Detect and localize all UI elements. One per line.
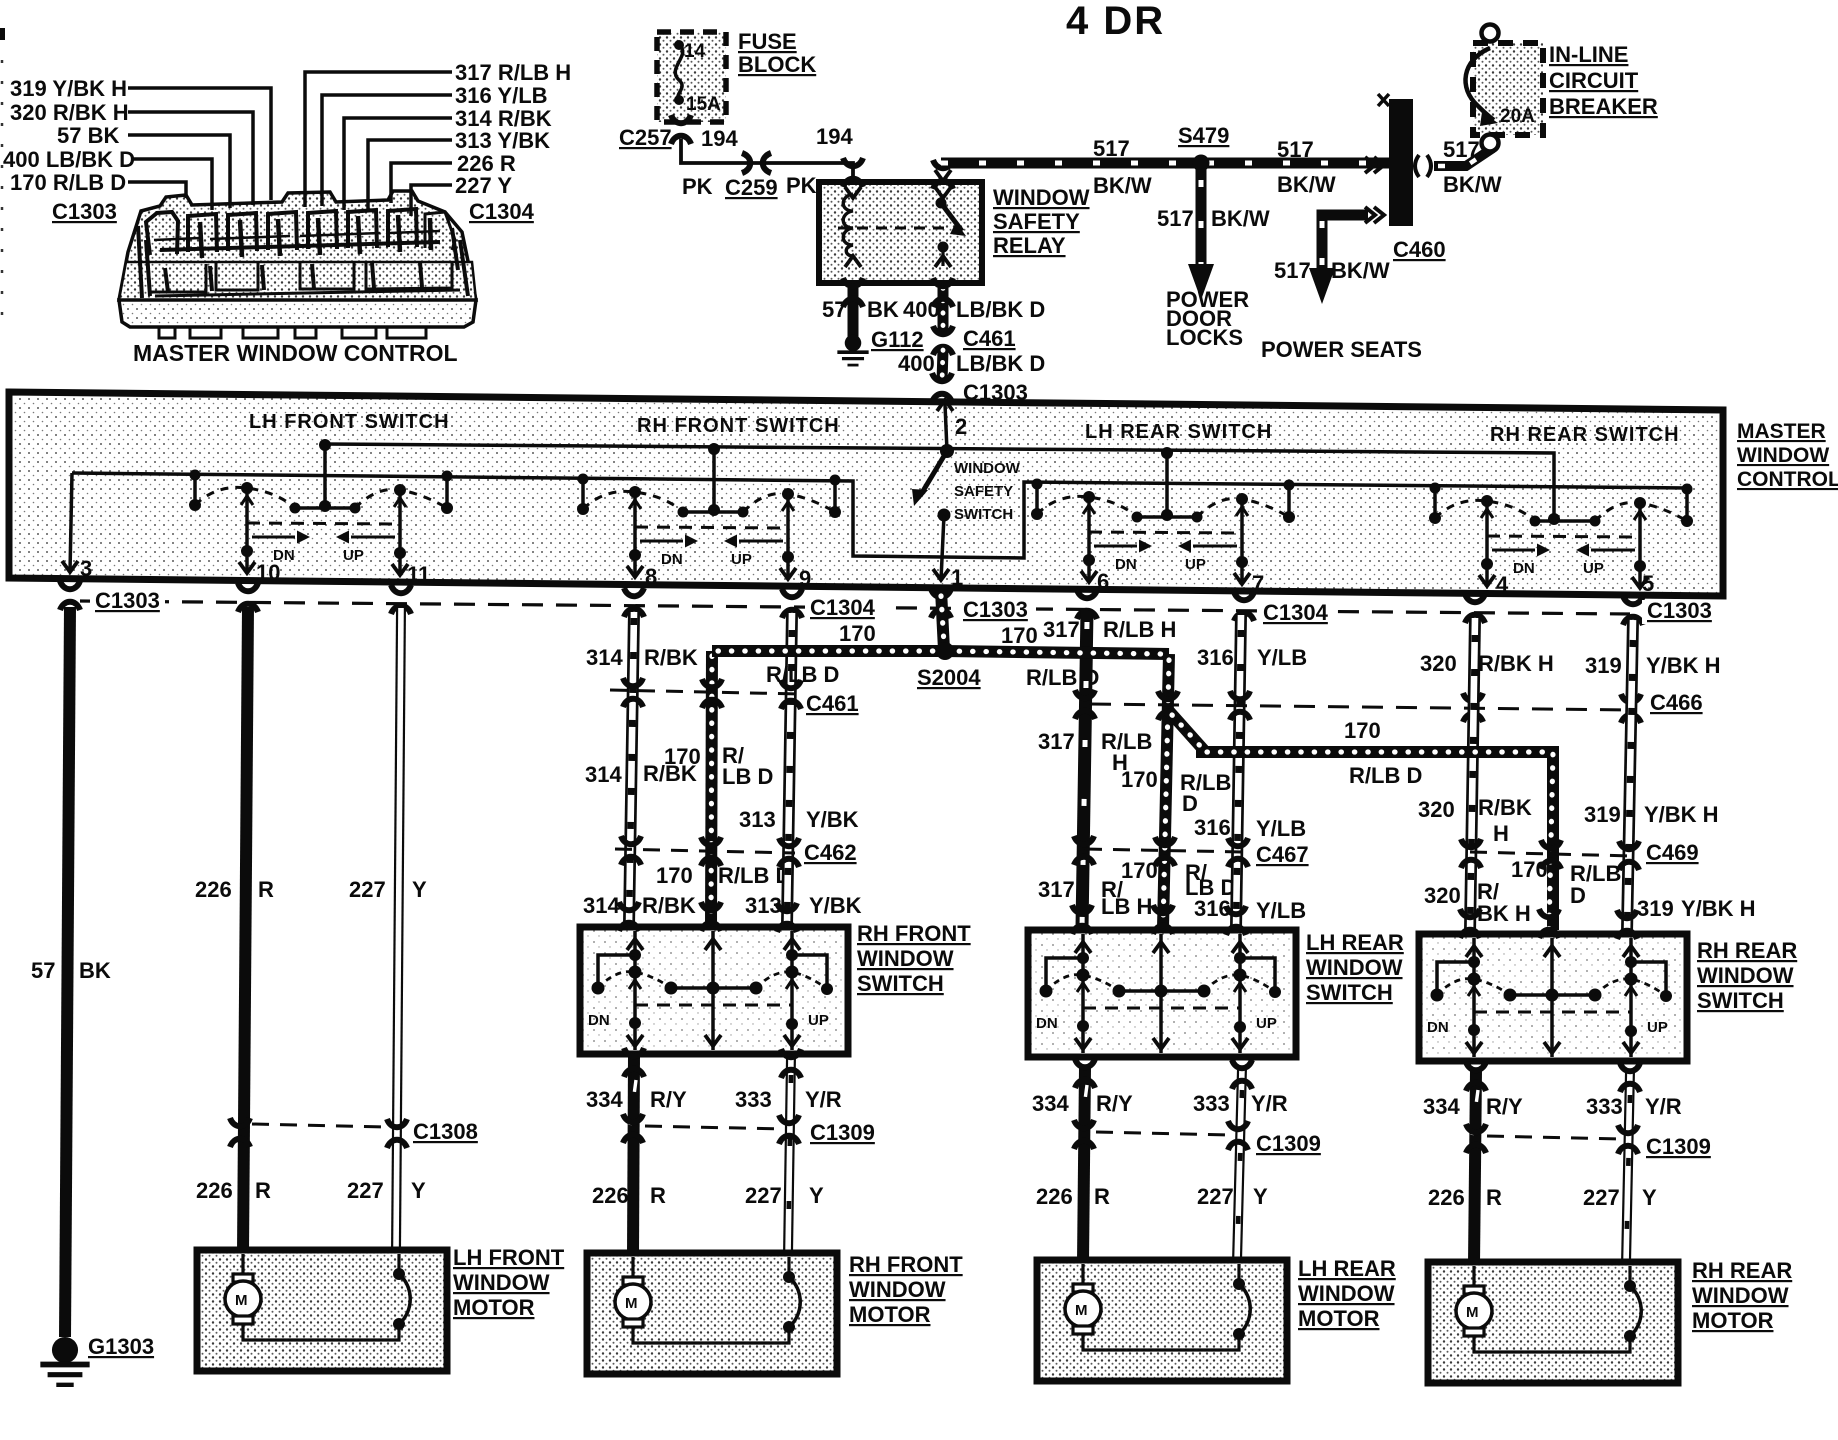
wire 170 R/LB D horizontal run	[712, 651, 1169, 654]
svg-text:LH REAR SWITCH: LH REAR SWITCH	[1085, 421, 1272, 443]
svg-text:C1303: C1303	[52, 199, 117, 224]
pin 2 lead inside box	[945, 404, 947, 451]
svg-text:WINDOW: WINDOW	[1298, 1281, 1395, 1306]
svg-text:Y/BK: Y/BK	[806, 807, 859, 832]
svg-text:317: 317	[1038, 729, 1075, 754]
svg-text:320: 320	[1418, 797, 1455, 822]
svg-text:316: 316	[1197, 645, 1234, 670]
svg-text:WINDOW: WINDOW	[849, 1277, 946, 1302]
svg-text:Y/LB: Y/LB	[1256, 816, 1306, 841]
svg-text:BLOCK: BLOCK	[738, 52, 816, 77]
RH rear window motor	[1428, 1262, 1678, 1383]
pictorial leader wire 227	[411, 185, 452, 216]
pictorial leader wire 400	[131, 159, 212, 210]
svg-text:BK/W: BK/W	[1093, 173, 1152, 198]
connector C462	[615, 836, 799, 867]
svg-text:MOTOR: MOTOR	[1692, 1308, 1774, 1333]
RH rear switch contacts	[1429, 483, 1693, 589]
wire 313 Y/BK column	[787, 613, 792, 925]
svg-text:C1304: C1304	[1263, 600, 1329, 625]
svg-text:C462: C462	[804, 840, 857, 865]
svg-text:2: 2	[955, 414, 967, 439]
svg-text:R/LB D: R/LB D	[766, 662, 839, 687]
svg-text:FUSE: FUSE	[738, 29, 797, 54]
svg-text:10: 10	[256, 560, 280, 585]
svg-text:R: R	[1486, 1185, 1502, 1210]
svg-text:319 Y/BK H: 319 Y/BK H	[10, 76, 127, 101]
svg-text:LB D: LB D	[722, 764, 773, 789]
svg-text:WINDOW: WINDOW	[993, 185, 1090, 210]
svg-text:D: D	[1570, 883, 1586, 908]
svg-text:PK: PK	[786, 173, 817, 198]
svg-text:R/LB H: R/LB H	[1103, 617, 1176, 642]
svg-text:170: 170	[839, 621, 876, 646]
svg-text:170: 170	[656, 863, 693, 888]
svg-text:Y/LB: Y/LB	[1256, 898, 1306, 923]
svg-text:BK/W: BK/W	[1211, 206, 1270, 231]
svg-text:314: 314	[583, 893, 620, 918]
wire 226 R to LH front motor	[243, 607, 248, 1252]
svg-text:BK/W: BK/W	[1277, 172, 1336, 197]
svg-text:Y/LB: Y/LB	[1257, 645, 1307, 670]
svg-text:S2004: S2004	[917, 665, 981, 690]
pictorial leader wire 57	[128, 135, 230, 208]
connector C460	[1365, 94, 1431, 226]
connector pins 4,5 C1303	[1465, 594, 1485, 623]
svg-text:313: 313	[739, 807, 776, 832]
pictorial leader wire 316	[322, 95, 452, 206]
svg-text:170: 170	[664, 744, 701, 769]
wire 334 R/Y RH rear	[1472, 1071, 1478, 1264]
svg-text:57 BK: 57 BK	[57, 123, 119, 148]
RH front window motor	[587, 1253, 837, 1374]
RH front window switch	[580, 927, 848, 1054]
svg-text:WINDOW: WINDOW	[954, 460, 1021, 477]
connector pins 8,9 C1304	[624, 588, 644, 617]
svg-text:227: 227	[1197, 1184, 1234, 1209]
connector C1308	[230, 1118, 407, 1148]
wire 517 C460 to circuit breaker	[1434, 143, 1490, 166]
svg-text:Y/BK: Y/BK	[809, 893, 862, 918]
wire 57 BK to ground	[65, 607, 70, 1337]
svg-text:SWITCH: SWITCH	[857, 971, 944, 996]
connector pins 6,7 C1304	[1077, 590, 1097, 619]
svg-text:316: 316	[1194, 815, 1231, 840]
svg-text:SWITCH: SWITCH	[1697, 988, 1784, 1013]
svg-text:5: 5	[1642, 571, 1654, 596]
svg-text:R/BK: R/BK	[642, 893, 696, 918]
svg-text:BK: BK	[79, 958, 111, 983]
svg-text:D: D	[1182, 791, 1198, 816]
svg-text:H: H	[1493, 821, 1509, 846]
svg-text:8: 8	[645, 564, 657, 589]
svg-text:RH REAR SWITCH: RH REAR SWITCH	[1490, 424, 1680, 446]
svg-text:170: 170	[1344, 718, 1381, 743]
wire 57 BK relay to ground	[848, 288, 859, 338]
LH front center tap riser	[323, 444, 327, 506]
svg-text:57: 57	[31, 958, 55, 983]
svg-text:226: 226	[195, 877, 232, 902]
svg-text:C1303: C1303	[963, 597, 1028, 622]
svg-text:334: 334	[1423, 1094, 1460, 1119]
svg-text:LH FRONT SWITCH: LH FRONT SWITCH	[249, 411, 450, 433]
svg-text:C1309: C1309	[1646, 1134, 1711, 1159]
connector pin1 C1303	[931, 589, 951, 618]
fuse block	[657, 32, 726, 122]
splice S479	[1193, 155, 1210, 172]
svg-text:194: 194	[816, 124, 853, 149]
wire 333 Y/R LH rear	[1237, 1068, 1242, 1262]
svg-text:G1303: G1303	[88, 1334, 154, 1359]
pictorial leader wire 313	[368, 140, 452, 212]
svg-text:333: 333	[1193, 1091, 1230, 1116]
svg-text:LB/BK D: LB/BK D	[956, 297, 1045, 322]
scan edge mark	[0, 28, 5, 40]
svg-text:C460: C460	[1393, 237, 1446, 262]
svg-text:BK/W: BK/W	[1331, 258, 1390, 283]
svg-text:R: R	[255, 1178, 271, 1203]
svg-text:Y: Y	[412, 877, 427, 902]
ground G1303	[40, 1337, 89, 1385]
splice S2004	[936, 642, 954, 660]
svg-text:6: 6	[1097, 569, 1109, 594]
connector pins 10,11	[238, 583, 258, 612]
svg-text:WINDOW: WINDOW	[1697, 963, 1794, 988]
svg-text:320: 320	[1420, 651, 1457, 676]
svg-text:316 Y/LB: 316 Y/LB	[455, 83, 548, 108]
svg-text:WINDOW: WINDOW	[453, 1270, 550, 1295]
svg-text:334: 334	[586, 1087, 623, 1112]
svg-text:Y/R: Y/R	[1645, 1094, 1682, 1119]
svg-text:C1309: C1309	[1256, 1131, 1321, 1156]
svg-text:226: 226	[1428, 1185, 1465, 1210]
pictorial leader wire 317	[305, 72, 452, 207]
wire 317 R/LB H column	[1082, 610, 1087, 928]
svg-text:Y: Y	[411, 1178, 426, 1203]
svg-text:MOTOR: MOTOR	[453, 1295, 535, 1320]
svg-text:170: 170	[1121, 858, 1158, 883]
RH rear center tap dot	[1548, 513, 1560, 525]
svg-text:R/LB D: R/LB D	[1349, 763, 1422, 788]
wire 170 R/LB D column (LH rear)	[1163, 654, 1169, 928]
wire 333 Y/R RH front	[788, 1056, 791, 1255]
pictorial leader wire 314	[344, 118, 452, 210]
window safety switch blade	[920, 451, 947, 496]
svg-text:LOCKS: LOCKS	[1166, 325, 1243, 350]
connector C1309 LH rear	[1074, 1120, 1248, 1150]
connector line C466	[1090, 704, 1634, 710]
main bus wire	[72, 473, 1687, 558]
svg-text:317: 317	[1043, 617, 1080, 642]
svg-text:C1303: C1303	[1647, 598, 1712, 623]
svg-text:227: 227	[1583, 1185, 1620, 1210]
svg-text:RELAY: RELAY	[993, 233, 1066, 258]
pictorial leader wire 226	[391, 163, 452, 203]
svg-text:Y: Y	[809, 1183, 824, 1208]
svg-text:R: R	[650, 1183, 666, 1208]
svg-text:RH REAR: RH REAR	[1697, 938, 1797, 963]
svg-text:334: 334	[1032, 1091, 1069, 1116]
wire 334 R/Y RH front	[630, 1056, 636, 1255]
svg-text:R/Y: R/Y	[650, 1087, 687, 1112]
svg-text:4 DR: 4 DR	[1066, 0, 1165, 43]
svg-text:Y/BK H: Y/BK H	[1681, 896, 1756, 921]
in-line circuit breaker	[1466, 25, 1544, 152]
svg-text:R/BK H: R/BK H	[1478, 651, 1554, 676]
svg-text:BK H: BK H	[1477, 901, 1531, 926]
wire 517 branch to power seats	[1309, 215, 1368, 304]
wire 227 Y to LH front motor	[396, 608, 401, 1252]
connector C257	[671, 115, 691, 144]
svg-text:517: 517	[1443, 137, 1480, 162]
pictorial leader wire 170	[128, 182, 186, 198]
connector C469	[1461, 839, 1639, 870]
svg-text:R: R	[1094, 1184, 1110, 1209]
pictorial leader wire 319	[128, 88, 271, 200]
wire 320 R/BK H column	[1470, 618, 1475, 932]
svg-text:Y: Y	[1253, 1184, 1268, 1209]
LH front switch contacts	[189, 470, 453, 576]
wire 333 Y/R RH rear	[1626, 1071, 1630, 1264]
wire 334 R/Y LH rear	[1081, 1068, 1087, 1262]
svg-text:4: 4	[1496, 572, 1509, 597]
LH rear switch contacts	[1031, 479, 1295, 585]
svg-text:WINDOW: WINDOW	[857, 946, 954, 971]
svg-text:C1303: C1303	[95, 588, 160, 613]
svg-text:LH FRONT: LH FRONT	[453, 1245, 565, 1270]
LH front window motor	[197, 1250, 447, 1371]
svg-text:MASTER: MASTER	[1737, 420, 1826, 443]
svg-text:319: 319	[1585, 653, 1622, 678]
wire 517 branch to power door locks	[1188, 163, 1214, 300]
upper rail wire	[323, 444, 1554, 515]
svg-text:C467: C467	[1256, 842, 1309, 867]
LH rear window motor	[1037, 1260, 1287, 1381]
svg-text:317: 317	[1038, 877, 1075, 902]
pictorial leader wire 320	[128, 112, 253, 205]
svg-text:POWER SEATS: POWER SEATS	[1261, 337, 1422, 362]
connector C1309 RH front	[623, 1114, 799, 1144]
wire 400 LB/BK D C461 to C1303	[942, 350, 943, 382]
svg-text:C1308: C1308	[413, 1119, 478, 1144]
svg-text:BK: BK	[867, 297, 899, 322]
svg-text:RH FRONT: RH FRONT	[849, 1252, 963, 1277]
svg-text:C461: C461	[806, 691, 859, 716]
svg-text:BK/W: BK/W	[1443, 172, 1502, 197]
svg-text:MOTOR: MOTOR	[1298, 1306, 1380, 1331]
svg-text:9: 9	[799, 566, 811, 591]
svg-text:517: 517	[1157, 206, 1194, 231]
svg-text:C259: C259	[725, 175, 778, 200]
RH front center tap riser	[712, 448, 716, 510]
connector C461 lower	[610, 678, 801, 709]
svg-text:317 R/LB H: 317 R/LB H	[455, 60, 571, 85]
svg-text:313 Y/BK: 313 Y/BK	[455, 128, 550, 153]
svg-text:C257: C257	[619, 125, 672, 150]
svg-text:Y/R: Y/R	[1251, 1091, 1288, 1116]
svg-text:S479: S479	[1178, 123, 1229, 148]
svg-text:319: 319	[1637, 896, 1674, 921]
svg-text:RH FRONT SWITCH: RH FRONT SWITCH	[637, 415, 840, 437]
RH rear window switch	[1419, 934, 1687, 1061]
svg-text:333: 333	[735, 1087, 772, 1112]
svg-text:IN-LINE: IN-LINE	[1549, 42, 1628, 67]
svg-text:320 R/BK H: 320 R/BK H	[10, 100, 129, 125]
svg-text:SWITCH: SWITCH	[1306, 980, 1393, 1005]
wire 170 R/LB D column (RH front)	[711, 651, 712, 925]
svg-text:319: 319	[1584, 802, 1621, 827]
window safety relay	[819, 158, 982, 283]
svg-text:11: 11	[407, 562, 430, 587]
svg-text:517: 517	[1274, 258, 1311, 283]
svg-text:RH REAR: RH REAR	[1692, 1258, 1792, 1283]
svg-text:C461: C461	[963, 326, 1016, 351]
svg-text:Y/R: Y/R	[805, 1087, 842, 1112]
wire 170 pin 1 drop to S2004	[941, 590, 944, 650]
svg-text:MOTOR: MOTOR	[849, 1302, 931, 1327]
scan edge dots	[1, 60, 4, 330]
svg-text:G112: G112	[871, 327, 924, 352]
svg-text:170: 170	[1511, 857, 1548, 882]
svg-text:SWITCH: SWITCH	[954, 506, 1013, 523]
svg-text:170: 170	[1001, 623, 1038, 648]
wire 316 Y/LB column	[1236, 615, 1241, 928]
wire 170 R/LB D diagonal jog and run to RH rear	[1168, 710, 1553, 930]
connector C1303 pin3	[60, 581, 80, 610]
svg-text:R/BK: R/BK	[1478, 795, 1532, 820]
svg-text:LH REAR: LH REAR	[1298, 1256, 1396, 1281]
wire 194 PK from fuse block to relay	[681, 139, 853, 176]
svg-text:RH FRONT: RH FRONT	[857, 921, 971, 946]
svg-text:R/Y: R/Y	[1486, 1094, 1523, 1119]
svg-text:PK: PK	[682, 174, 713, 199]
svg-text:333: 333	[1586, 1094, 1623, 1119]
connector C467	[1074, 836, 1248, 867]
svg-text:14: 14	[684, 41, 706, 62]
svg-text:15A: 15A	[686, 94, 721, 115]
svg-text:WINDOW: WINDOW	[1306, 955, 1403, 980]
svg-text:Y: Y	[1642, 1185, 1657, 1210]
svg-text:C1304: C1304	[810, 595, 876, 620]
connector C461	[933, 326, 953, 355]
svg-text:227 Y: 227 Y	[455, 173, 512, 198]
svg-text:C469: C469	[1646, 840, 1699, 865]
svg-text:517: 517	[1277, 137, 1314, 162]
connector C1309 RH rear	[1466, 1124, 1638, 1154]
svg-text:C466: C466	[1650, 690, 1703, 715]
pin 3 riser	[70, 473, 72, 572]
LH rear window switch	[1028, 930, 1296, 1057]
wire 319 Y/BK H column	[1627, 620, 1633, 932]
svg-text:WINDOW: WINDOW	[1737, 444, 1829, 467]
svg-text:517: 517	[1093, 136, 1130, 161]
svg-text:WINDOW: WINDOW	[1692, 1283, 1789, 1308]
svg-text:C1309: C1309	[810, 1120, 875, 1145]
svg-text:CIRCUIT: CIRCUIT	[1549, 68, 1639, 93]
svg-text:1: 1	[951, 565, 963, 590]
master window control pictorial	[119, 191, 476, 338]
svg-text:227: 227	[349, 877, 386, 902]
svg-text:227: 227	[347, 1178, 384, 1203]
svg-text:226: 226	[196, 1178, 233, 1203]
master window control box	[9, 392, 1723, 596]
wire 400 LB/BK D relay to C461	[938, 288, 949, 332]
svg-text:57: 57	[822, 297, 846, 322]
svg-text:170 R/LB D: 170 R/LB D	[10, 170, 126, 195]
window safety switch contact and pin 1	[938, 509, 951, 522]
svg-text:LB H: LB H	[1101, 894, 1152, 919]
LH rear center tap riser	[1165, 453, 1169, 515]
svg-text:314: 314	[585, 762, 622, 787]
svg-text:194: 194	[701, 126, 738, 151]
ground G112	[837, 335, 868, 365]
svg-text:R/Y: R/Y	[1096, 1091, 1133, 1116]
svg-text:20A: 20A	[1500, 106, 1535, 127]
svg-text:226: 226	[592, 1183, 629, 1208]
RH front switch contacts	[577, 474, 841, 580]
svg-text:3: 3	[80, 556, 92, 581]
svg-text:SAFETY: SAFETY	[954, 483, 1013, 500]
connector C1303 (pin 2)	[932, 373, 952, 402]
svg-text:170: 170	[1121, 767, 1158, 792]
svg-text:CONTROL: CONTROL	[1737, 468, 1838, 491]
svg-text:R/BK: R/BK	[644, 645, 698, 670]
wire 517 BK/W feed	[935, 163, 1389, 181]
svg-text:LH REAR: LH REAR	[1306, 930, 1404, 955]
wire 314 R/BK column	[629, 612, 634, 925]
svg-text:BREAKER: BREAKER	[1549, 94, 1658, 119]
svg-text:400 LB/BK D: 400 LB/BK D	[3, 147, 135, 172]
svg-text:400: 400	[898, 351, 935, 376]
svg-text:400: 400	[903, 297, 940, 322]
svg-text:227: 227	[745, 1183, 782, 1208]
connector C259	[742, 153, 771, 173]
connector line C1303/C1304 below master box	[80, 601, 1630, 614]
svg-text:SAFETY: SAFETY	[993, 209, 1080, 234]
svg-text:Y/BK H: Y/BK H	[1646, 653, 1721, 678]
svg-text:226: 226	[1036, 1184, 1073, 1209]
svg-text:LB/BK D: LB/BK D	[956, 351, 1045, 376]
svg-text:Y/BK H: Y/BK H	[1644, 802, 1719, 827]
svg-text:MASTER WINDOW CONTROL: MASTER WINDOW CONTROL	[133, 340, 458, 366]
svg-text:320: 320	[1424, 883, 1461, 908]
svg-text:R: R	[258, 877, 274, 902]
svg-text:314: 314	[586, 645, 623, 670]
svg-text:C1304: C1304	[469, 199, 535, 224]
